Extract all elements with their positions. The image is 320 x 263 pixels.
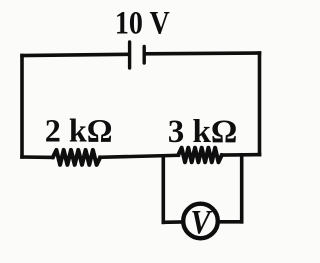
- resistor R1 2 kOhm zigzag: [53, 150, 100, 165]
- wire top-right segment: [146, 51, 260, 55]
- svg-text:10 V: 10 V: [115, 4, 170, 41]
- wire left vertical: [20, 56, 24, 158]
- svg-text:2 kΩ: 2 kΩ: [45, 113, 113, 149]
- wire voltmeter bottom-right stub: [219, 220, 242, 224]
- svg-text:V: V: [191, 202, 213, 240]
- wire voltmeter bottom-left stub: [163, 220, 182, 224]
- wire voltmeter right drop: [240, 155, 244, 222]
- wire bottom-right segment: [222, 153, 260, 157]
- battery B1 short plate: [142, 47, 145, 64]
- voltmeter M1 circle: [183, 204, 218, 239]
- wire middle segment: [100, 155, 178, 157]
- wire voltmeter left drop: [162, 157, 166, 222]
- wire top-left segment: [22, 54, 128, 55]
- resistor R2 3 kOhm zigzag: [178, 148, 222, 162]
- wire right vertical: [258, 53, 262, 155]
- wire bottom-left segment: [22, 155, 53, 159]
- battery B1 long plate: [128, 42, 131, 68]
- svg-text:3 kΩ: 3 kΩ: [168, 114, 238, 150]
